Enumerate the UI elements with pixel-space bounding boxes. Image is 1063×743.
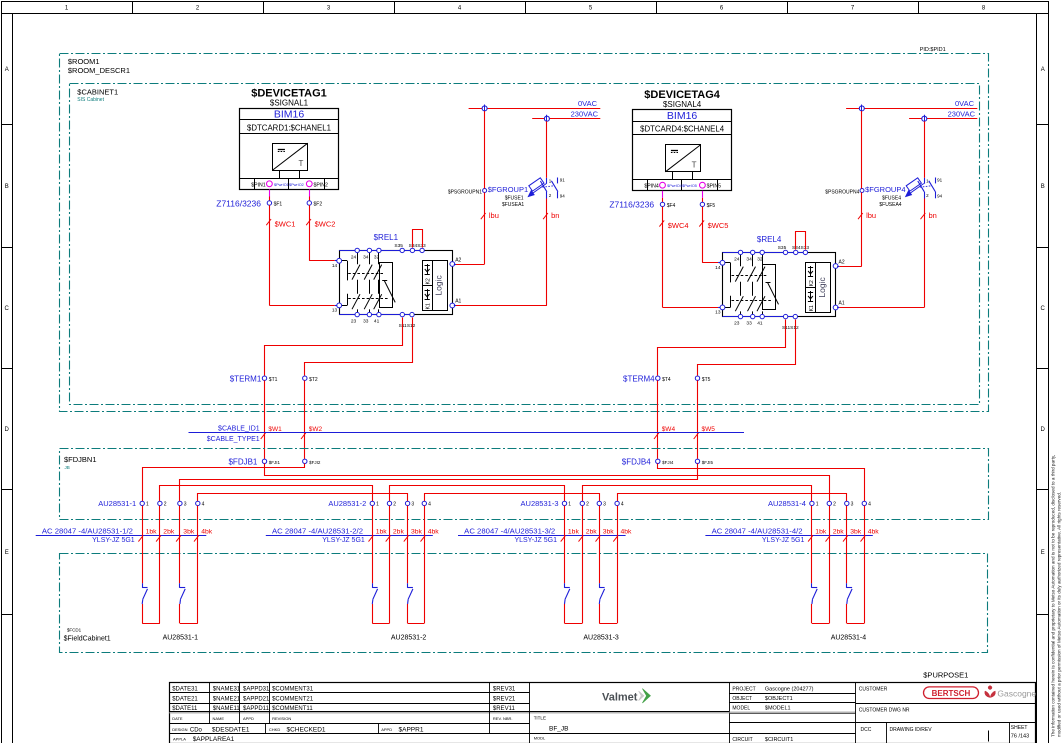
svg-text:AU28531-4: AU28531-4 <box>831 635 867 642</box>
svg-text:B: B <box>5 184 9 190</box>
svg-text:33: 33 <box>746 320 752 326</box>
svg-text:Logic: Logic <box>434 274 444 295</box>
svg-text:BF_JB: BF_JB <box>549 725 569 732</box>
svg-text:PROJECT: PROJECT <box>732 687 755 693</box>
svg-text:8: 8 <box>982 6 986 12</box>
svg-text:S34S33: S34S33 <box>409 243 426 249</box>
fuse-group labels $FGROUP4 <box>865 185 905 208</box>
field cable AC 28047 -4/AU28531-3/2 <box>458 526 632 544</box>
svg-text:14: 14 <box>715 265 721 271</box>
bus 230VAC <box>532 109 600 118</box>
svg-text:REV. NBR.: REV. NBR. <box>493 716 513 721</box>
svg-text:$PwrIO5: $PwrIO5 <box>682 184 697 188</box>
svg-text:$FieldCabinet1: $FieldCabinet1 <box>64 636 111 643</box>
svg-text:$NAME31: $NAME31 <box>213 686 241 692</box>
svg-text:AU28531-3: AU28531-3 <box>521 499 559 508</box>
svg-text:4: 4 <box>202 502 205 508</box>
svg-text:S11S12: S11S12 <box>782 325 799 331</box>
field device AU28531-2 wiring loops <box>372 506 424 624</box>
fuse terminal $F5 <box>700 202 715 209</box>
svg-text:3: 3 <box>851 502 854 508</box>
svg-text:$T2: $T2 <box>309 377 318 383</box>
svg-text:$PIN2: $PIN2 <box>314 182 329 188</box>
Gascogne logo <box>985 686 1037 699</box>
bus 230VAC <box>909 109 977 118</box>
wire lbu (0VAC node to $REL4 A2) <box>837 111 876 267</box>
svg-text:Logic: Logic <box>817 276 827 297</box>
svg-text:$W5: $W5 <box>702 426 716 433</box>
svg-text:$FUSE4: $FUSE4 <box>882 196 901 202</box>
svg-text:2: 2 <box>393 502 396 508</box>
svg-text:$W4: $W4 <box>662 426 676 433</box>
svg-text:PID:$PID1: PID:$PID1 <box>920 47 946 53</box>
svg-text:$PURPOSE1: $PURPOSE1 <box>923 671 968 680</box>
svg-text:BIM16: BIM16 <box>274 109 305 121</box>
svg-text:1bk: 1bk <box>146 529 158 536</box>
svg-text:$FCD1: $FCD1 <box>67 627 82 632</box>
svg-text:modified or used without a pri: modified or used without a prior permiss… <box>1057 492 1062 737</box>
svg-text:1: 1 <box>146 502 149 508</box>
svg-text:$APPD31: $APPD31 <box>243 686 270 692</box>
limit switch contact of AU28531-2 loop 2 <box>408 583 413 604</box>
svg-text:3: 3 <box>327 6 331 12</box>
svg-text:$PSGROUPN1: $PSGROUPN1 <box>448 190 482 196</box>
svg-text:230VAC: 230VAC <box>948 109 976 118</box>
border frame top band <box>2 1 1049 14</box>
field device AU28531-1 wiring loops <box>142 506 198 624</box>
svg-text:$FJI4: $FJI4 <box>662 460 674 465</box>
svg-text:76 /143: 76 /143 <box>1011 734 1029 740</box>
isolator/transducer symbol in $DEVICETAG4 <box>665 145 700 180</box>
svg-text:lbu: lbu <box>866 211 876 220</box>
wire $WC4 ($F4 to relay pin 13) <box>659 207 720 308</box>
wire bn (breaker pin2 to $REL1 A1) <box>454 121 560 305</box>
limit switch contact of AU28531-4 loop 2 <box>847 583 853 604</box>
svg-text:E: E <box>1041 550 1045 556</box>
junction box terminals $FDJB1 <box>228 457 320 466</box>
wire S11 to $T1 <box>265 318 403 376</box>
svg-text:CHKD: CHKD <box>269 727 280 732</box>
safety relay $REL1 <box>340 233 453 315</box>
svg-text:$FGROUP1: $FGROUP1 <box>488 185 528 194</box>
device card $DEVICETAG1 (BIM16) <box>240 88 339 190</box>
svg-text:$ROOM_DESCR1: $ROOM_DESCR1 <box>68 66 130 75</box>
svg-text:34: 34 <box>746 257 752 263</box>
svg-text:BIM16: BIM16 <box>667 110 698 122</box>
svg-text:T: T <box>299 159 304 168</box>
svg-text:2bk: 2bk <box>833 529 845 536</box>
svg-text:91: 91 <box>560 178 566 183</box>
magenta pin stubs of $DEVICETAG4 <box>663 191 703 202</box>
wire S12 to $T5 <box>698 320 796 376</box>
svg-text:MODL: MODL <box>534 735 546 740</box>
svg-text:AU28531-1: AU28531-1 <box>98 499 136 508</box>
pin $PIN2 circle <box>306 181 312 187</box>
revision table texts <box>172 686 516 743</box>
wire $WC1 ($F1 to relay pin 13) <box>266 205 337 305</box>
terminal row of $DEVICETAG4 <box>633 180 732 191</box>
svg-text:34: 34 <box>363 255 369 261</box>
junction wiring net AU28531-2 pin2 to AU28531-3 pin1 <box>390 486 565 502</box>
field device AU28531-4 wiring loops <box>812 506 865 624</box>
svg-text:$APPD21: $APPD21 <box>243 697 270 703</box>
field cable AC 28047 -4/AU28531-1/2 <box>36 526 213 544</box>
svg-text:K1: K1 <box>426 303 432 309</box>
svg-text:2bk: 2bk <box>586 529 598 536</box>
svg-text:The information contained here: The information contained herein is conf… <box>1051 455 1056 737</box>
svg-text:2: 2 <box>549 193 552 198</box>
svg-text:BERTSCH: BERTSCH <box>932 689 971 698</box>
svg-text:2bk: 2bk <box>163 529 175 536</box>
junction wiring net AU28531-1 pin4 to AU28531-2 pin3 <box>198 494 408 502</box>
limit switch contact of AU28531-3 loop 2 <box>599 583 604 604</box>
svg-text:$FGROUP4: $FGROUP4 <box>865 185 905 194</box>
svg-text:2: 2 <box>586 502 589 508</box>
svg-text:AU28531-2: AU28531-2 <box>391 635 427 642</box>
svg-text:AC 28047 -4/AU28531-1/2: AC 28047 -4/AU28531-1/2 <box>42 526 133 535</box>
svg-text:1: 1 <box>376 502 379 508</box>
junction wiring net $FJI2 to AU28531-1 pin1 <box>143 464 305 502</box>
node on 230VAC bus <box>544 115 549 123</box>
svg-text:23: 23 <box>734 320 740 326</box>
svg-text:A: A <box>5 67 9 73</box>
svg-text:3: 3 <box>184 502 187 508</box>
svg-text:K1: K1 <box>809 305 815 311</box>
svg-text:$REV11: $REV11 <box>493 706 516 712</box>
svg-text:$PwrIO1: $PwrIO1 <box>274 183 289 187</box>
svg-text:A2: A2 <box>839 260 845 266</box>
svg-text:$TERM1: $TERM1 <box>230 374 262 383</box>
svg-text:$COMMENT21: $COMMENT21 <box>272 697 314 703</box>
svg-text:$W1: $W1 <box>268 426 282 433</box>
svg-text:K2: K2 <box>426 278 432 284</box>
svg-text:DESIGN: DESIGN <box>172 727 187 732</box>
circuit breaker $FGROUP4 <box>906 178 943 199</box>
DCC drawing id sheet row <box>861 723 1030 743</box>
svg-text:YLSY-JZ 5G1: YLSY-JZ 5G1 <box>762 537 805 544</box>
safety relay $REL4 <box>723 235 836 317</box>
isolator/transducer symbol in $DEVICETAG1 <box>272 143 307 178</box>
svg-text:$FUSEA1: $FUSEA1 <box>502 202 524 208</box>
svg-text:bn: bn <box>929 211 937 220</box>
svg-text:4bk: 4bk <box>428 529 440 536</box>
svg-text:$PIN1: $PIN1 <box>251 182 266 188</box>
wire $WC2 ($F2 to relay pin 14) <box>306 205 337 261</box>
wire $W4 ($T4 down to $FJI4) <box>654 380 675 459</box>
node on 0VAC bus <box>859 105 864 113</box>
svg-text:$FDJB1: $FDJB1 <box>228 457 257 466</box>
svg-text:YLSY-JZ 5G1: YLSY-JZ 5G1 <box>322 537 365 544</box>
bus 0VAC <box>469 99 601 109</box>
svg-text:B: B <box>1041 184 1045 190</box>
svg-text:3bk: 3bk <box>850 529 862 536</box>
svg-text:4: 4 <box>428 502 431 508</box>
svg-text:D: D <box>1041 427 1046 433</box>
svg-text:Z7116/3236: Z7116/3236 <box>216 198 261 208</box>
fuse terminal $F2 <box>307 201 322 208</box>
svg-text:NAME: NAME <box>213 716 225 721</box>
svg-text:6: 6 <box>720 6 724 12</box>
title area texts <box>529 712 729 741</box>
svg-text:SIS Cabinet: SIS Cabinet <box>77 97 104 103</box>
svg-text:$F5: $F5 <box>707 203 716 209</box>
$REL1 pin labels <box>332 243 462 329</box>
svg-text:$ROOM1: $ROOM1 <box>68 57 100 66</box>
svg-text:2: 2 <box>926 193 929 198</box>
terminal group $TERM1 <box>230 374 318 383</box>
svg-text:4bk: 4bk <box>621 529 633 536</box>
junction wiring net $FJI4 to AU28531-4 pin4 <box>658 464 865 502</box>
svg-text:$DATE11: $DATE11 <box>172 706 198 712</box>
junction wiring net $FJI1 to AU28531-4 pin2 <box>265 464 830 502</box>
project info column <box>729 683 856 743</box>
title block frame <box>169 683 1035 743</box>
svg-text:$WC4: $WC4 <box>668 221 689 230</box>
svg-text:bn: bn <box>551 211 559 220</box>
svg-text:$APPLAREA1: $APPLAREA1 <box>193 736 235 743</box>
svg-text:$COMMENT11: $COMMENT11 <box>272 706 313 712</box>
svg-text:94: 94 <box>937 193 943 198</box>
$REL1 internal contact columns <box>339 250 395 314</box>
svg-text:94: 94 <box>560 193 566 198</box>
pin $PIN4 circle <box>660 182 666 188</box>
field cable AC 28047 -4/AU28531-4/2 <box>705 526 879 544</box>
limit switch contact of AU28531-2 loop 1 <box>372 583 377 604</box>
magenta pin stubs of $DEVICETAG1 <box>270 189 310 200</box>
terminal row of $DEVICETAG1 <box>240 178 339 189</box>
svg-text:$T4: $T4 <box>662 377 671 383</box>
svg-text:APPLA: APPLA <box>173 736 186 741</box>
copyright disclaimer vertical text <box>1051 455 1062 737</box>
svg-text:$FDJB4: $FDJB4 <box>622 457 651 466</box>
svg-text:S34S33: S34S33 <box>792 245 809 251</box>
svg-text:CDo: CDo <box>190 727 203 733</box>
svg-text:$NAME21: $NAME21 <box>213 697 241 703</box>
svg-text:13: 13 <box>332 308 338 314</box>
svg-text:$FDJBN1: $FDJBN1 <box>64 455 97 464</box>
limit switch contact of AU28531-4 loop 1 <box>812 583 818 604</box>
svg-text:$CABLE_TYPE1: $CABLE_TYPE1 <box>207 436 260 443</box>
svg-text:4bk: 4bk <box>201 529 213 536</box>
svg-text:$REL4: $REL4 <box>757 235 782 244</box>
svg-text:T: T <box>692 160 697 169</box>
svg-text:$PSGROUPN4: $PSGROUPN4 <box>825 190 859 196</box>
svg-text:$PwrIO2: $PwrIO2 <box>289 183 304 187</box>
fuse terminal $F4 <box>660 202 675 209</box>
svg-text:APPD: APPD <box>381 727 392 732</box>
pin $PIN1 circle <box>267 181 273 187</box>
svg-text:C: C <box>1041 306 1046 312</box>
svg-text:24: 24 <box>351 255 357 261</box>
field device AU28531-3 wiring loops <box>565 506 618 624</box>
junction wiring net AU28531-3 pin4 to AU28531-4 pin3 <box>618 494 847 502</box>
svg-text:1: 1 <box>816 502 819 508</box>
svg-text:YLSY-JZ 5G1: YLSY-JZ 5G1 <box>92 537 135 544</box>
power-supply group node $PSGROUPN1 <box>448 189 487 196</box>
svg-text:$OBJECT1: $OBJECT1 <box>765 696 793 702</box>
border frame left column <box>1 13 13 743</box>
junction wiring net AU28531-2 pin4 to AU28531-3 pin3 <box>425 494 600 502</box>
svg-text:Gascogne: Gascogne <box>997 689 1036 699</box>
junction wiring net AU28531-3 pin2 to AU28531-4 pin1 <box>583 486 812 502</box>
svg-text:$FUSEA4: $FUSEA4 <box>879 202 901 208</box>
svg-text:1bk: 1bk <box>376 529 388 536</box>
svg-text:$TERM4: $TERM4 <box>623 374 655 383</box>
svg-text:4: 4 <box>868 502 871 508</box>
svg-text:MODEL: MODEL <box>732 706 750 712</box>
svg-text:OBJECT: OBJECT <box>732 696 752 702</box>
svg-text:4: 4 <box>458 6 462 12</box>
junction wiring net AU28531-1 pin2 to AU28531-2 pin1 <box>160 486 373 502</box>
cabinet boundary $CABINET1 <box>70 84 980 405</box>
svg-text:14: 14 <box>332 263 338 269</box>
svg-text:230VAC: 230VAC <box>571 109 599 118</box>
svg-text:7: 7 <box>851 6 855 12</box>
svg-text:CUSTOMER DWG NR: CUSTOMER DWG NR <box>859 707 910 713</box>
svg-text:$CHECKED1: $CHECKED1 <box>287 726 326 733</box>
svg-text:1bk: 1bk <box>568 529 580 536</box>
svg-text:$CIRCUIT1: $CIRCUIT1 <box>765 737 793 743</box>
svg-text:AC 28047 -4/AU28531-3/2: AC 28047 -4/AU28531-3/2 <box>464 526 555 535</box>
terminal group $TERM4 <box>623 374 711 383</box>
svg-text:DCC: DCC <box>861 727 872 733</box>
svg-text:AC 28047 -4/AU28531-4/2: AC 28047 -4/AU28531-4/2 <box>712 526 803 535</box>
cable $CABLE_ID1 marker line <box>189 426 745 443</box>
field cable AC 28047 -4/AU28531-2/2 <box>266 526 439 544</box>
$REL1 internal wiring (blue) and pins <box>337 248 455 317</box>
svg-text:DATE: DATE <box>172 716 183 721</box>
$REL4 internal contact columns <box>723 252 779 316</box>
svg-text:4bk: 4bk <box>868 529 880 536</box>
svg-text:24: 24 <box>734 257 740 263</box>
svg-text:1bk: 1bk <box>815 529 827 536</box>
$REL4 pin labels <box>715 245 845 331</box>
svg-text:$T5: $T5 <box>702 377 711 383</box>
junction box boundary $FDJBN1 <box>60 449 989 520</box>
junction box terminals $FDJB4 <box>622 457 714 466</box>
svg-text:C: C <box>5 306 10 312</box>
svg-text:Z7116/3236: Z7116/3236 <box>609 200 654 210</box>
svg-text:AU28531-4: AU28531-4 <box>768 499 806 508</box>
svg-text:32: 32 <box>374 255 380 261</box>
pin $PIN5 circle <box>700 182 706 188</box>
jumper S34-S33 on $REL4 <box>796 232 806 250</box>
svg-text:DRAWING ID/REV: DRAWING ID/REV <box>890 727 933 733</box>
svg-text:$F1: $F1 <box>274 202 283 208</box>
svg-text:$DESDATE1: $DESDATE1 <box>212 726 250 733</box>
svg-text:$FJI2: $FJI2 <box>309 460 321 465</box>
wire lbu (0VAC node to $REL1 A2) <box>454 111 499 265</box>
svg-text:33: 33 <box>363 318 369 324</box>
svg-text:$NAME11: $NAME11 <box>213 706 241 712</box>
svg-text:$W2: $W2 <box>309 426 323 433</box>
svg-text:AU28531-2: AU28531-2 <box>328 499 366 508</box>
svg-text:JB: JB <box>65 465 70 470</box>
svg-text:APPD: APPD <box>243 716 254 721</box>
svg-text:CUSTOMER: CUSTOMER <box>859 686 888 692</box>
wire $W5 ($T5 down to $FJI5) <box>694 380 716 459</box>
junction terminal strip AU28531-4 <box>768 499 871 508</box>
svg-text:3: 3 <box>411 502 414 508</box>
fuse-group labels $FGROUP1 <box>488 185 528 208</box>
limit switch contact of AU28531-1 loop 2 <box>180 583 186 604</box>
svg-text:5: 5 <box>589 6 593 12</box>
svg-text:$PIN5: $PIN5 <box>707 184 722 190</box>
wire $W1 ($T1 down to $FJI1) <box>261 380 282 459</box>
room boundary $ROOM1 <box>60 54 989 412</box>
svg-text:$PIN4: $PIN4 <box>644 184 659 190</box>
BERTSCH logo <box>924 687 979 699</box>
Valmet logo <box>602 689 650 704</box>
svg-text:$FUSE1: $FUSE1 <box>505 196 524 202</box>
svg-text:0VAC: 0VAC <box>578 99 598 108</box>
svg-text:4: 4 <box>621 502 624 508</box>
svg-text:$WC2: $WC2 <box>315 219 336 228</box>
svg-text:1: 1 <box>65 6 69 12</box>
svg-text:REVISION: REVISION <box>272 716 291 721</box>
svg-text:2: 2 <box>833 502 836 508</box>
jumper S34-S33 on $REL1 <box>413 230 423 248</box>
svg-text:$REV21: $REV21 <box>493 697 516 703</box>
svg-text:A: A <box>1041 67 1045 73</box>
svg-text:K2: K2 <box>809 280 815 286</box>
svg-text:AU28531-3: AU28531-3 <box>583 635 619 642</box>
$REL4 internal wiring (blue) and pins <box>720 250 838 319</box>
svg-text:D: D <box>5 427 10 433</box>
svg-text:3bk: 3bk <box>411 529 423 536</box>
svg-text:$MODEL1: $MODEL1 <box>765 706 791 712</box>
svg-text:$COMMENT31: $COMMENT31 <box>272 686 314 692</box>
svg-text:Valmet: Valmet <box>602 692 638 704</box>
svg-text:AC 28047 -4/AU28531-2/2: AC 28047 -4/AU28531-2/2 <box>272 526 363 535</box>
junction terminal strip AU28531-3 <box>521 499 624 508</box>
svg-text:$F4: $F4 <box>667 203 676 209</box>
svg-text:3bk: 3bk <box>603 529 615 536</box>
border frame right column <box>1037 13 1049 743</box>
svg-text:$WC1: $WC1 <box>275 219 296 228</box>
device card $DEVICETAG4 (BIM16) <box>633 89 732 191</box>
svg-text:AU28531-1: AU28531-1 <box>163 635 199 642</box>
svg-text:2: 2 <box>164 502 167 508</box>
wire S11 to $T4 <box>658 320 786 376</box>
limit switch contact of AU28531-3 loop 1 <box>565 583 570 604</box>
svg-text:$FJI1: $FJI1 <box>269 460 281 465</box>
svg-text:A1: A1 <box>839 301 845 307</box>
svg-text:$DTCARD4:$CHANEL4: $DTCARD4:$CHANEL4 <box>640 125 725 134</box>
wire $WC5 ($F5 to relay pin 14) <box>699 207 728 263</box>
field cabinet boundary $FieldCabinet1 <box>60 554 988 653</box>
power-supply group node $PSGROUPN4 <box>825 189 864 196</box>
junction terminal strip AU28531-1 <box>98 499 204 508</box>
svg-text:41: 41 <box>757 320 763 326</box>
circuit breaker $FGROUP1 <box>528 178 565 199</box>
wire bn (breaker pin2 to $REL4 A1) <box>837 121 937 307</box>
svg-text:$SIGNAL4: $SIGNAL4 <box>663 100 702 109</box>
svg-text:$PwrIO4: $PwrIO4 <box>667 184 682 188</box>
fuse terminal $F1 <box>267 201 282 208</box>
node on 230VAC bus <box>922 115 927 123</box>
svg-text:SHEET: SHEET <box>1011 725 1028 731</box>
svg-text:TITLE: TITLE <box>534 715 546 720</box>
svg-text:$APPD11: $APPD11 <box>243 706 270 712</box>
svg-text:$F2: $F2 <box>314 202 323 208</box>
$REL1 coil block K2 K1 and logic <box>423 261 448 311</box>
svg-text:S11S12: S11S12 <box>399 323 416 329</box>
svg-text:13: 13 <box>715 310 721 316</box>
svg-text:$REL1: $REL1 <box>374 233 399 242</box>
svg-text:$WC5: $WC5 <box>708 221 729 230</box>
svg-text:$FJI5: $FJI5 <box>702 460 714 465</box>
